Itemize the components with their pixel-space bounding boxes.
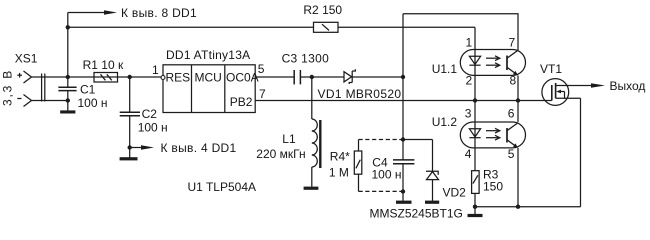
- node R2 branch: [66, 25, 70, 29]
- svg-text:U1.1: U1.1: [432, 62, 458, 76]
- label VD1 MBR0520: [318, 87, 402, 101]
- node gate right: [516, 98, 520, 102]
- svg-text:3,3 В: 3,3 В: [1, 69, 15, 106]
- svg-text:2: 2: [466, 74, 473, 88]
- node C2 top: [128, 75, 132, 79]
- label R4*: [330, 149, 350, 163]
- svg-text:OC0A: OC0A: [226, 71, 259, 85]
- label C1: [80, 83, 96, 97]
- node gate left: [473, 98, 477, 102]
- wire vertical supply rail: [67, 13, 69, 88]
- svg-text:DD1 ATtiny13A: DD1 ATtiny13A: [166, 48, 250, 62]
- transistor VT1: [542, 79, 592, 106]
- label pin 1: [152, 63, 159, 77]
- label pin4 U1.2: [465, 147, 472, 161]
- label RES: [166, 71, 191, 85]
- svg-text:L1: L1: [282, 132, 296, 146]
- capacitor C1: [58, 87, 76, 111]
- wire boost rail vertical: [402, 14, 404, 160]
- svg-text:8: 8: [510, 74, 517, 88]
- capacitor C4: [393, 160, 414, 201]
- svg-text:MCU: MCU: [195, 71, 222, 85]
- IC DD1 block: [163, 65, 255, 113]
- label U1 TLP504A: [188, 180, 257, 194]
- plus terminal: [17, 73, 22, 78]
- wire gate rail: [255, 100, 552, 102]
- node boost mid: [401, 137, 405, 141]
- svg-text:3: 3: [465, 106, 472, 120]
- svg-text:XS1: XS1: [15, 52, 38, 66]
- body arrow VT1: [556, 90, 561, 94]
- label 100 н C2: [138, 121, 168, 135]
- label pin 7: [259, 87, 266, 101]
- svg-text:100 н: 100 н: [372, 168, 402, 182]
- ground C1: [60, 110, 75, 113]
- wire R2 rail right: [338, 26, 475, 28]
- label 100 н C4: [372, 168, 402, 182]
- label pin7 U1.1: [509, 36, 516, 50]
- wire plus rail: [32, 76, 162, 78]
- label C2: [142, 107, 158, 121]
- ground C2: [120, 157, 138, 160]
- svg-text:R4*: R4*: [330, 149, 350, 163]
- svg-text:PB2: PB2: [230, 95, 253, 109]
- node C4 bottom: [401, 189, 405, 193]
- label К выв. 4 DD1: [161, 141, 237, 155]
- svg-text:1 М: 1 М: [329, 166, 349, 180]
- label U1.2: [432, 115, 458, 129]
- label C3 1300: [282, 51, 329, 65]
- zener diode VD2: [426, 140, 439, 201]
- svg-text:7: 7: [259, 87, 266, 101]
- capacitor C2: [120, 77, 140, 158]
- ground C4: [396, 201, 412, 204]
- svg-text:Выход: Выход: [610, 79, 646, 93]
- svg-text:R2 150: R2 150: [303, 3, 342, 17]
- svg-text:RES: RES: [166, 71, 191, 85]
- node C2 bottom junction: [128, 145, 132, 149]
- wire R3 to ground node: [474, 193, 476, 214]
- label pin6 U1.2: [508, 106, 515, 120]
- wire VD1 to boost node: [352, 76, 403, 78]
- label 150 R3: [483, 180, 503, 194]
- label 1 М: [329, 166, 349, 180]
- ground VD2: [425, 201, 439, 204]
- label pin 5: [258, 62, 265, 76]
- svg-text:100 н: 100 н: [138, 121, 168, 135]
- node source ground left: [473, 205, 477, 209]
- svg-text:220 мкГн: 220 мкГн: [256, 147, 305, 161]
- svg-text:U1.2: U1.2: [432, 115, 458, 129]
- label DD1 ATtiny13A: [166, 48, 250, 62]
- label 220 мкГн: [256, 147, 305, 161]
- svg-text:C1: C1: [80, 83, 96, 97]
- node boost top: [401, 75, 405, 79]
- wire boost top horizontal: [403, 14, 518, 51]
- label R2 150: [303, 3, 342, 17]
- wire pin4 to R3: [474, 148, 476, 171]
- optocoupler U1.1: [460, 50, 525, 76]
- label 100 н C1: [78, 96, 108, 110]
- svg-text:C2: C2: [142, 107, 158, 121]
- wire source drop: [580, 98, 582, 206]
- svg-text:MMSZ5245BT1G: MMSZ5245BT1G: [370, 207, 463, 221]
- label C4: [372, 155, 388, 169]
- label 3,3 В: [1, 69, 15, 106]
- emitter arrow U1.2: [513, 143, 518, 147]
- label pin3 U1.2: [465, 106, 472, 120]
- label VD2: [443, 185, 467, 199]
- label pin5 U1.2: [508, 147, 515, 161]
- wire pin8 to pin6: [517, 75, 519, 122]
- svg-text:1: 1: [466, 36, 473, 50]
- svg-text:5: 5: [508, 147, 515, 161]
- emitter arrow U1.1: [513, 71, 518, 75]
- resistor R2: [314, 22, 339, 32]
- wire bottom source rail: [475, 206, 581, 208]
- resistor R4 optional: [354, 140, 403, 192]
- label R1 10 к: [83, 58, 124, 72]
- label К выв. 8 DD1: [121, 6, 197, 20]
- svg-text:VD1 MBR0520: VD1 MBR0520: [318, 87, 402, 101]
- label pin1 U1.1: [466, 36, 473, 50]
- svg-text:150: 150: [483, 180, 503, 194]
- label U1.1: [432, 62, 458, 76]
- wire C3 to VD1: [300, 76, 344, 78]
- node supply junction: [66, 75, 70, 79]
- label R3: [483, 167, 499, 181]
- label MMSZ5245BT1G: [370, 207, 463, 221]
- svg-text:1: 1: [152, 63, 159, 77]
- svg-text:VT1: VT1: [540, 62, 562, 76]
- svg-text:100 н: 100 н: [78, 96, 108, 110]
- resistor R3: [472, 171, 480, 194]
- arrow Выход: [591, 83, 605, 88]
- svg-text:C3 1300: C3 1300: [282, 51, 329, 65]
- pin 1 bubble: [161, 76, 165, 80]
- wire pin2 to pin3: [474, 75, 476, 122]
- optocoupler U1.2: [460, 122, 525, 148]
- label XS1: [15, 52, 38, 66]
- label L1: [282, 132, 296, 146]
- label MCU: [195, 71, 222, 85]
- resistor R1: [94, 73, 118, 83]
- node C1 minus junction: [66, 98, 70, 102]
- svg-text:R1 10 к: R1 10 к: [83, 58, 124, 72]
- label Выход: [610, 79, 646, 93]
- connector XS1: [24, 71, 45, 107]
- wire pin5: [255, 76, 294, 78]
- label pin8 U1.1: [510, 74, 517, 88]
- svg-text:К выв. 4 DD1: К выв. 4 DD1: [161, 141, 237, 155]
- svg-text:К выв. 8 DD1: К выв. 8 DD1: [121, 6, 197, 20]
- wire to pin8 arrow: [68, 12, 105, 14]
- svg-text:U1 TLP504A: U1 TLP504A: [188, 180, 257, 194]
- wire pin5 down: [517, 148, 519, 207]
- svg-text:4: 4: [465, 147, 472, 161]
- wire R2 rail left: [68, 26, 314, 28]
- wire boost to VD2: [403, 139, 433, 141]
- wire minus rail: [32, 100, 68, 102]
- arrow К выв. 4 DD1: [141, 145, 154, 150]
- node pin5 ground: [516, 205, 520, 209]
- ground R3: [468, 214, 483, 217]
- diode VD1: [344, 69, 355, 84]
- node L1 branch: [310, 75, 314, 79]
- label VT1: [540, 62, 562, 76]
- label OC0A: [226, 71, 259, 85]
- svg-text:5: 5: [258, 62, 265, 76]
- svg-text:7: 7: [509, 36, 516, 50]
- arrow К выв. 8 DD1: [104, 10, 117, 15]
- wire to U1.1 pin 1: [474, 27, 476, 49]
- label pin2 U1.1: [466, 74, 473, 88]
- svg-text:6: 6: [508, 106, 515, 120]
- ground L1: [304, 187, 319, 190]
- capacitor C3: [294, 70, 300, 84]
- inductor L1: [312, 77, 321, 187]
- wire to pin4 arrow: [130, 147, 142, 149]
- minus terminal: [17, 98, 21, 100]
- label PB2: [230, 95, 253, 109]
- svg-text:VD2: VD2: [443, 185, 467, 199]
